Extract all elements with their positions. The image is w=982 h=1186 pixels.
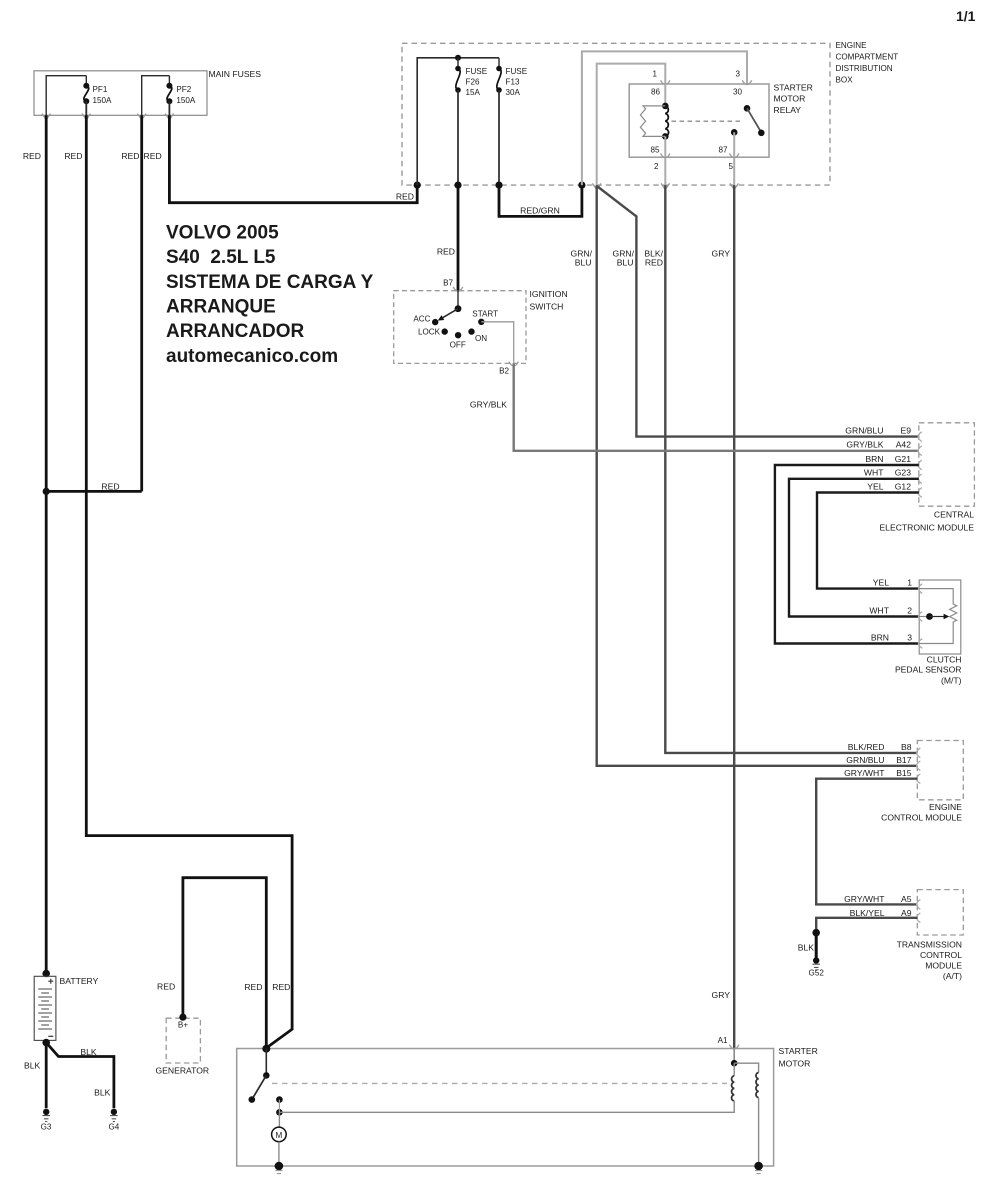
svg-text:WHT: WHT bbox=[869, 605, 889, 615]
wire RED/GRN jumper bbox=[499, 185, 582, 216]
svg-text:F13: F13 bbox=[506, 78, 520, 87]
starter solenoid switch bbox=[249, 1049, 283, 1116]
svg-text:G52: G52 bbox=[809, 969, 825, 978]
ECM connector marks bbox=[917, 748, 921, 783]
pin 1 connector mark bbox=[661, 80, 671, 84]
svg-text:PF2: PF2 bbox=[176, 85, 191, 94]
node: motor ground on box edge bbox=[275, 1162, 284, 1171]
svg-text:RED: RED bbox=[645, 258, 663, 268]
svg-text:GRY/BLK: GRY/BLK bbox=[470, 399, 507, 409]
svg-text:BLU: BLU bbox=[617, 258, 634, 268]
svg-text:BLK: BLK bbox=[798, 943, 815, 953]
svg-text:E9: E9 bbox=[900, 426, 911, 436]
wire RED: generator B+ to starter bbox=[183, 878, 266, 1049]
wire GRY/WHT: ECM B15 to TCM A5 bbox=[816, 779, 917, 905]
svg-text:ELECTRONIC MODULE: ELECTRONIC MODULE bbox=[879, 522, 974, 532]
wire BLK/RED: relay pin 2 down to ECM B8 bbox=[665, 185, 917, 753]
svg-text:B15: B15 bbox=[896, 768, 912, 778]
svg-text:RELAY: RELAY bbox=[774, 105, 802, 115]
node: generator B+ terminal bbox=[179, 1014, 186, 1021]
svg-text:BLK/YEL: BLK/YEL bbox=[850, 908, 885, 918]
wire RED: fuse box out3 down to jumper bbox=[140, 115, 143, 491]
svg-text:1: 1 bbox=[907, 577, 912, 587]
wire: contact to motor bbox=[278, 1112, 280, 1127]
wire: internal feed bus to fuses bbox=[417, 58, 499, 185]
svg-text:RED: RED bbox=[23, 151, 41, 161]
svg-text:SISTEMA DE CARGA Y: SISTEMA DE CARGA Y bbox=[166, 272, 374, 293]
node: junction wire1/wire3 bbox=[43, 488, 50, 495]
svg-text:ARRANQUE: ARRANQUE bbox=[166, 297, 276, 318]
svg-text:RED: RED bbox=[244, 982, 262, 992]
ground G4 bbox=[108, 1109, 119, 1132]
wire RED: fuse PF2 out to distribution box bbox=[169, 115, 417, 202]
svg-text:A5: A5 bbox=[901, 894, 912, 904]
svg-text:G12: G12 bbox=[895, 482, 911, 492]
wire: right inner bus of main fuses bbox=[142, 76, 170, 116]
svg-text:RED/GRN: RED/GRN bbox=[520, 205, 560, 215]
node: F13 output on box edge bbox=[495, 182, 502, 189]
relay coil U1 bbox=[640, 84, 668, 140]
svg-text:CONTROL: CONTROL bbox=[920, 950, 962, 960]
svg-text:G23: G23 bbox=[895, 468, 911, 478]
CEM connector marks bbox=[918, 432, 922, 498]
wire GRN/BLU #1: pin1 exit down to ECM B17 bbox=[597, 185, 918, 766]
wire GRN/BLU #2: pin1 exit to CEM E9 bbox=[598, 187, 919, 437]
svg-text:BLK: BLK bbox=[24, 1061, 41, 1071]
svg-text:BRN: BRN bbox=[871, 632, 889, 642]
B7 connector mark bbox=[453, 287, 463, 291]
svg-text:GRY: GRY bbox=[712, 990, 731, 1000]
svg-text:G21: G21 bbox=[895, 454, 911, 464]
svg-text:STARTER: STARTER bbox=[779, 1046, 818, 1056]
svg-text:RED: RED bbox=[64, 151, 82, 161]
node: RED feed entry on box edge bbox=[414, 182, 421, 189]
TRANSMISSION CONTROL MODULE box (dashed) bbox=[897, 890, 964, 982]
svg-text:G4: G4 bbox=[108, 1123, 119, 1132]
STARTER MOTOR box bbox=[237, 1046, 818, 1166]
TCM pin labels bbox=[844, 894, 912, 918]
svg-text:A42: A42 bbox=[896, 440, 912, 450]
svg-text:150A: 150A bbox=[93, 96, 113, 105]
svg-text:3: 3 bbox=[735, 70, 740, 79]
svg-text:BRN: BRN bbox=[865, 454, 883, 464]
svg-text:RED: RED bbox=[101, 482, 119, 492]
svg-text:GRN/BLU: GRN/BLU bbox=[846, 755, 884, 765]
svg-text:START: START bbox=[472, 310, 498, 319]
wire RED: fuse PF1 out to starter motor bbox=[86, 115, 292, 1048]
svg-text:F26: F26 bbox=[466, 78, 480, 87]
svg-text:RED: RED bbox=[272, 982, 290, 992]
svg-text:(A/T): (A/T) bbox=[943, 971, 962, 981]
svg-text:86: 86 bbox=[651, 88, 661, 97]
svg-text:OFF: OFF bbox=[450, 341, 466, 350]
pin 3 connector mark bbox=[742, 80, 752, 84]
ECM pin labels bbox=[844, 742, 912, 778]
svg-text:RED: RED bbox=[396, 192, 414, 202]
connector marks at main-fuse box bottom bbox=[42, 114, 174, 120]
wire BLK to ground G52 bbox=[815, 933, 818, 961]
svg-text:CENTRAL: CENTRAL bbox=[934, 509, 974, 519]
svg-text:PEDAL SENSOR: PEDAL SENSOR bbox=[895, 665, 962, 675]
svg-text:1: 1 bbox=[652, 70, 657, 79]
clutch sensor pin labels bbox=[869, 577, 912, 642]
wire RED: F26 output down to ignition switch B7 bbox=[457, 185, 460, 291]
wire RED: fuse box out1 to battery bbox=[45, 115, 48, 973]
svg-text:BOX: BOX bbox=[836, 76, 854, 85]
relay switch contact from pin 30 bbox=[731, 105, 765, 136]
svg-text:ON: ON bbox=[475, 334, 487, 343]
CENTRAL ELECTRONIC MODULE box (dashed) bbox=[879, 423, 974, 533]
wire: START contact to B2 bbox=[481, 322, 513, 364]
svg-text:automecanico.com: automecanico.com bbox=[166, 346, 338, 367]
pin 87 connector mark bbox=[729, 153, 739, 157]
svg-text:RED: RED bbox=[157, 982, 175, 992]
wire: relay pin 87 to box edge bbox=[733, 132, 735, 185]
svg-text:2: 2 bbox=[654, 162, 659, 171]
potentiometer inside clutch sensor bbox=[919, 589, 957, 644]
svg-text:TRANSMISSION: TRANSMISSION bbox=[897, 940, 962, 950]
node: RED/GRN to relay pin 30 feed bbox=[578, 182, 585, 189]
svg-text:PF1: PF1 bbox=[93, 85, 108, 94]
node: BLK junction bbox=[812, 929, 820, 937]
wire colour labels bbox=[571, 249, 731, 1001]
svg-text:RED: RED bbox=[437, 246, 455, 256]
CLUTCH PEDAL SENSOR box bbox=[895, 580, 962, 686]
svg-text:ENGINE: ENGINE bbox=[836, 41, 868, 50]
svg-text:S40 2.5L L5: S40 2.5L L5 bbox=[166, 247, 276, 268]
svg-text:GRY/WHT: GRY/WHT bbox=[844, 768, 885, 778]
node: bus junction at F26 bbox=[455, 55, 461, 61]
svg-text:1/1: 1/1 bbox=[956, 8, 976, 24]
wire YEL: CEM G12 to clutch pedal sensor 1 bbox=[817, 493, 919, 589]
wire BRN: CEM G21 to clutch pedal sensor 3 bbox=[775, 465, 919, 644]
starter solenoid coils bbox=[732, 1063, 759, 1101]
wire: solenoid to motor contact bbox=[279, 1101, 734, 1112]
svg-text:G3: G3 bbox=[41, 1123, 52, 1132]
wire RED: jumper between wire1 and wire3 bbox=[46, 490, 142, 493]
node: starter feed junction on box edge bbox=[262, 1045, 270, 1053]
svg-text:RED: RED bbox=[144, 151, 162, 161]
svg-text:FUSE: FUSE bbox=[506, 67, 528, 76]
svg-text:GRN/BLU: GRN/BLU bbox=[845, 426, 883, 436]
svg-text:BLK: BLK bbox=[94, 1088, 111, 1098]
wire: relay pin 3/30 feed (gray) bbox=[582, 51, 747, 185]
TCM connector marks bbox=[917, 900, 921, 923]
svg-text:STARTER: STARTER bbox=[774, 83, 813, 93]
svg-text:2: 2 bbox=[907, 605, 912, 615]
svg-text:LOCK: LOCK bbox=[418, 328, 441, 337]
GENERATOR box (dashed) bbox=[155, 1018, 209, 1075]
svg-text:SWITCH: SWITCH bbox=[530, 302, 564, 312]
node: battery positive terminal bbox=[42, 970, 50, 978]
wire BLK: battery to ground G3 bbox=[45, 1043, 48, 1109]
svg-text:COMPARTMENT: COMPARTMENT bbox=[836, 53, 899, 62]
motor M bbox=[272, 1127, 287, 1142]
svg-text:YEL: YEL bbox=[867, 482, 883, 492]
wire GRY: relay pin 5 down to starter A1 bbox=[733, 185, 735, 1048]
svg-text:BLK/RED: BLK/RED bbox=[848, 742, 885, 752]
svg-text:GRY/BLK: GRY/BLK bbox=[846, 440, 883, 450]
node: solenoid ground on box edge bbox=[754, 1162, 763, 1171]
dashed solenoid link bbox=[272, 1082, 727, 1084]
wire: motor to case ground bbox=[278, 1142, 280, 1166]
connector marks at distribution box bottom edge bbox=[592, 183, 738, 189]
svg-text:MOTOR: MOTOR bbox=[779, 1058, 811, 1068]
svg-text:30A: 30A bbox=[506, 88, 521, 97]
svg-text:YEL: YEL bbox=[873, 577, 889, 587]
svg-text:BLU: BLU bbox=[575, 258, 592, 268]
svg-text:150A: 150A bbox=[176, 96, 196, 105]
svg-text:87: 87 bbox=[718, 146, 728, 155]
pin 85 connector mark bbox=[661, 153, 671, 157]
ignition switch internals bbox=[413, 291, 498, 350]
svg-text:GENERATOR: GENERATOR bbox=[155, 1065, 209, 1075]
B2 connector mark bbox=[509, 362, 519, 366]
svg-text:3: 3 bbox=[907, 632, 912, 642]
svg-text:VOLVO 2005: VOLVO 2005 bbox=[166, 223, 279, 244]
wire BLK: battery to ground G4 bbox=[46, 1043, 114, 1109]
IGNITION SWITCH box (dashed) bbox=[394, 289, 568, 364]
wire: A1 into solenoid bbox=[733, 1049, 735, 1064]
svg-text:GRY: GRY bbox=[712, 249, 731, 259]
svg-text:BLK: BLK bbox=[80, 1047, 97, 1057]
ground G52 bbox=[809, 957, 825, 977]
wire BLK/YEL: TCM A9 to ground junction bbox=[816, 918, 917, 933]
svg-text:85: 85 bbox=[650, 146, 660, 155]
svg-text:M: M bbox=[276, 1131, 283, 1140]
svg-text:5: 5 bbox=[728, 162, 733, 171]
ground G3 bbox=[41, 1109, 52, 1132]
title block bbox=[166, 223, 374, 367]
svg-text:FUSE: FUSE bbox=[466, 67, 488, 76]
MAIN FUSES box bbox=[34, 69, 261, 115]
svg-text:RED: RED bbox=[121, 151, 139, 161]
node: battery negative terminal bbox=[42, 1039, 50, 1047]
svg-text:MODULE: MODULE bbox=[925, 961, 962, 971]
CEM pin labels bbox=[845, 426, 911, 492]
wire: relay pin 1/86 feed (gray) bbox=[597, 64, 666, 186]
svg-text:B+: B+ bbox=[178, 1021, 188, 1030]
svg-text:ARRANCADOR: ARRANCADOR bbox=[166, 321, 305, 342]
svg-text:MAIN FUSES: MAIN FUSES bbox=[209, 69, 262, 79]
svg-text:GRY/WHT: GRY/WHT bbox=[844, 894, 885, 904]
fuse PF2 150A bbox=[166, 76, 196, 116]
svg-text:15A: 15A bbox=[466, 88, 481, 97]
svg-text:B2: B2 bbox=[499, 366, 509, 375]
svg-text:ACC: ACC bbox=[413, 315, 430, 324]
svg-text:A9: A9 bbox=[901, 908, 912, 918]
svg-text:CLUTCH: CLUTCH bbox=[927, 655, 962, 665]
STARTER MOTOR RELAY box bbox=[629, 83, 813, 158]
ENGINE COMPARTMENT DISTRIBUTION BOX (dashed) bbox=[402, 41, 898, 185]
fuse F13 30A bbox=[496, 58, 527, 185]
A1 connector mark bbox=[729, 1045, 739, 1049]
wire WHT: CEM G23 to clutch pedal sensor 2 bbox=[789, 479, 919, 617]
svg-text:MOTOR: MOTOR bbox=[774, 94, 806, 104]
svg-text:IGNITION: IGNITION bbox=[530, 289, 568, 299]
svg-text:ENGINE: ENGINE bbox=[929, 802, 962, 812]
svg-text:BATTERY: BATTERY bbox=[60, 976, 99, 986]
svg-text:CONTROL MODULE: CONTROL MODULE bbox=[881, 812, 962, 822]
wire: solenoid right coil to case ground bbox=[758, 1098, 760, 1166]
fuse PF1 150A bbox=[83, 76, 112, 116]
ENGINE CONTROL MODULE box (dashed) bbox=[881, 741, 963, 823]
battery bbox=[34, 976, 98, 1040]
svg-text:A1: A1 bbox=[718, 1036, 728, 1045]
clutch sensor connector marks bbox=[918, 584, 922, 649]
dashed actuator link bbox=[672, 120, 744, 122]
svg-text:B17: B17 bbox=[896, 755, 912, 765]
svg-text:B7: B7 bbox=[443, 279, 453, 288]
svg-text:(M/T): (M/T) bbox=[941, 676, 962, 686]
svg-text:DISTRIBUTION: DISTRIBUTION bbox=[836, 64, 893, 73]
wire GRY/BLK: B2 to CEM A42 bbox=[514, 363, 919, 450]
fuse F26 15A bbox=[455, 58, 487, 185]
wire: left inner bus of main fuses bbox=[46, 76, 86, 116]
svg-text:B8: B8 bbox=[901, 742, 912, 752]
svg-text:WHT: WHT bbox=[864, 468, 884, 478]
node: solenoid top bbox=[731, 1060, 738, 1067]
svg-text:30: 30 bbox=[733, 88, 743, 97]
wire: relay pin 85 to box edge bbox=[664, 136, 666, 185]
